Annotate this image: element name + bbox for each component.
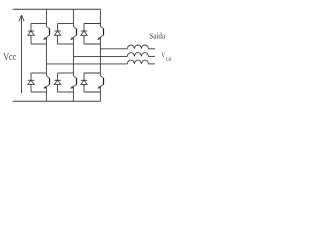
svg-text:Saída: Saída <box>149 30 165 40</box>
svg-text:Vcc: Vcc <box>3 52 16 63</box>
svg-text:ca: ca <box>166 55 172 62</box>
